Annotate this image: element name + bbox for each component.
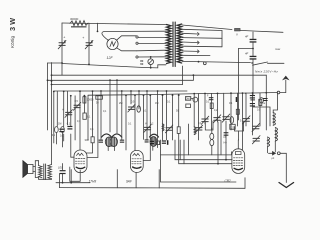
wire (178, 95, 180, 127)
wire (97, 96, 99, 158)
wire anode lines to output stage (175, 140, 232, 160)
resistor R box rf2 (236, 109, 239, 114)
oval Cu (260, 98, 264, 103)
wire bottom link left (161, 154, 189, 156)
wire (134, 95, 136, 150)
svg-text:3 W: 3 W (8, 18, 17, 31)
wire tap bus vertical (221, 31, 223, 47)
wire secondary taps mid (182, 29, 222, 30)
junction dots mid (92, 90, 174, 96)
wire to earth (280, 153, 286, 182)
capacitor C if right (120, 140, 124, 141)
capacitor C 4uF lower (250, 56, 257, 57)
wire (238, 131, 240, 140)
tube V2 AF2 (130, 150, 143, 172)
svg-text:300: 300 (85, 138, 90, 142)
trimmer capacitor C a2 (62, 108, 72, 117)
svg-text:max: max (275, 47, 281, 51)
grid bias loop box (189, 124, 232, 155)
wire corner down right (265, 75, 267, 130)
resistor R oval (230, 117, 234, 124)
trimmer capacitor C mains left (58, 36, 66, 49)
resistor R oval m (137, 106, 141, 112)
wire (149, 95, 151, 160)
wire (217, 93, 219, 122)
wire avc top (253, 107, 270, 126)
wire (191, 97, 193, 99)
title Körting 3W (rotated) (8, 18, 17, 48)
svg-text:1M: 1M (58, 122, 61, 125)
value labels (58, 101, 261, 131)
wire antenna to bus (280, 92, 286, 94)
wire (83, 96, 85, 113)
connector circle (203, 62, 206, 65)
wire tube1 cathode (70, 170, 72, 183)
wire tube2 loop risers (116, 170, 118, 188)
wire barretter loop to primary tap (102, 31, 166, 40)
resistor R oval2 (61, 127, 65, 133)
connector plug (269, 152, 276, 155)
capacitor C rf small3 (263, 98, 268, 99)
junction dots (53, 90, 85, 96)
wire (198, 94, 200, 141)
wire (172, 95, 174, 140)
bus chassis y91 (54, 90, 187, 92)
wire (109, 80, 111, 132)
coil L det (150, 134, 159, 137)
wire (87, 96, 89, 140)
resistor R 0,1 box (83, 113, 86, 119)
svg-text:4F: 4F (245, 34, 249, 38)
resistor R mains dropper (70, 21, 88, 26)
transformer T1 primary taps with plugs (138, 37, 166, 39)
svg-text:Körtig: Körtig (10, 36, 15, 48)
wire (67, 91, 69, 125)
vertical x51.5 B+ to output transformer (51, 63, 53, 165)
box 125 (230, 124, 235, 129)
resistor R oval1 (55, 127, 59, 133)
wire (157, 91, 159, 148)
wire vertical x62 (61, 23, 63, 75)
resistor R box rf3 (259, 99, 262, 105)
wire coil leads (267, 147, 269, 153)
wires into tube1 top (70, 134, 72, 157)
transformer T1 primary winding (167, 25, 172, 64)
wire (79, 91, 81, 149)
wire cap tap left bracket (239, 48, 254, 50)
wire secondary bottom tap to switch (182, 61, 251, 62)
capacitor C a4 (59, 129, 64, 130)
wire (166, 91, 168, 140)
capacitor C rf small1 (209, 97, 214, 98)
svg-text:+: + (62, 108, 64, 112)
wire antenna to coil (273, 93, 277, 113)
wire (70, 96, 72, 126)
wire (242, 93, 244, 150)
trimmer capacitor C m3 (165, 125, 172, 133)
dial lamp L (148, 59, 154, 65)
wire (217, 122, 219, 164)
capacitor C rf small2 (250, 97, 255, 98)
wire U link2 (235, 122, 244, 131)
wire barretter to tap y50 (117, 48, 137, 51)
trimmer capacitor C m1 (128, 104, 135, 112)
junction (88, 64, 90, 66)
svg-text:12F: 12F (107, 56, 114, 60)
wire (223, 93, 225, 120)
trimmer capacitor C (mains) (82, 36, 93, 49)
capacitor C g (224, 132, 229, 133)
wire (230, 93, 232, 130)
wire lamp top lead (150, 57, 152, 59)
wire (237, 93, 239, 126)
svg-text:DNS: DNS (186, 98, 191, 101)
capacitor C if left (99, 140, 103, 141)
wire output tube cathode loop (158, 170, 160, 188)
wire (252, 93, 254, 135)
wire cap chain down (252, 59, 254, 94)
capacitor C a3 (67, 126, 72, 127)
bus y95 (88, 93, 277, 96)
wire (56, 92, 58, 127)
wire heater bus y63 (62, 64, 166, 68)
wire (130, 91, 132, 104)
text max (275, 47, 281, 51)
svg-text:+: + (63, 36, 65, 40)
box small (186, 104, 191, 108)
wire (245, 93, 247, 126)
svg-text:125: 125 (230, 126, 235, 129)
junction dots on bus (204, 92, 267, 95)
resistor R box left of IF (91, 137, 94, 143)
svg-text:H+: H+ (224, 141, 228, 145)
capacitor C 4uF upper (252, 32, 254, 39)
trimmer capacitor C rf2b (222, 114, 230, 122)
svg-text:V: V (236, 32, 238, 36)
transformer T1 core (172, 22, 174, 67)
wire (225, 121, 227, 160)
coil L ant1 (273, 113, 275, 126)
wire secondary HT top tap (182, 25, 232, 30)
resistor R h box (96, 96, 103, 99)
wire (100, 91, 102, 140)
antenna A (282, 76, 290, 81)
wire (252, 42, 254, 55)
resistor R 30000 vertical (83, 97, 86, 103)
bus heater2 y84.5 (52, 66, 183, 85)
wire barretter to tap y36 (117, 36, 137, 40)
wire (125, 95, 127, 150)
fuse F (235, 28, 241, 31)
caps on x253 chain lower (250, 95, 255, 96)
speaker LS (23, 161, 28, 178)
wire coil stubs (107, 147, 109, 151)
wire (259, 93, 261, 126)
output tube V3 (232, 149, 245, 174)
coil L ant2 (275, 128, 277, 142)
wire (211, 93, 213, 130)
trimmer capacitor C m2 (144, 125, 151, 133)
wire (204, 94, 206, 125)
wire vertical x89 (88, 23, 90, 64)
resistor R double oval (210, 133, 214, 139)
coil L ant3 (268, 137, 270, 147)
wire bottom loop y182 (161, 140, 237, 182)
svg-text:4F: 4F (245, 51, 249, 55)
svg-text:17H8: 17H8 (89, 179, 97, 183)
wire (74, 96, 76, 140)
barretter tube U 12F (107, 38, 118, 49)
svg-text:Netz 220V~Hz: Netz 220V~Hz (255, 70, 278, 74)
wire tube V1 leads down (59, 174, 61, 188)
svg-text:30000: 30000 (70, 17, 79, 21)
trimmer capacitor C a1 (73, 102, 80, 110)
wire (146, 91, 148, 139)
wire audio bottom y182.7 (56, 182, 90, 184)
box DNS (185, 97, 190, 101)
capacitor C dark bar (236, 97, 238, 102)
wire (116, 80, 118, 133)
wire (138, 91, 140, 109)
resistor R box rf (210, 103, 213, 109)
output transformer T2 core (43, 164, 45, 180)
svg-text:60: 60 (140, 62, 144, 66)
tube V1 AF (74, 150, 87, 173)
wire (121, 91, 123, 140)
trimmer capacitor C rf2 (213, 115, 221, 123)
ground bus bottom (60, 187, 246, 190)
trimmer capacitor C rf5 (252, 123, 260, 131)
wire (193, 94, 195, 127)
vertical x47.5 (47, 63, 49, 130)
wire cap leads (62, 164, 64, 171)
wire output tube top lead (237, 140, 239, 149)
trimmer capacitor C rf1 (201, 116, 209, 124)
trimmer capacitor C g2 (196, 125, 203, 132)
wire (53, 92, 55, 144)
wire (143, 95, 145, 139)
circle comp (193, 97, 198, 102)
wire speaker top/bottom to winding (38, 161, 40, 166)
tap tick marks (198, 33, 200, 53)
wire U link1 (205, 121, 213, 130)
bus B+ y75.2 (52, 74, 267, 76)
wire left links (48, 62, 63, 64)
transformer T1 secondary winding (177, 24, 182, 63)
capacitor C det (145, 139, 149, 140)
wire (220, 121, 222, 155)
wire lamp bottom lead (150, 65, 152, 68)
coil L det2 (162, 124, 164, 131)
wire (63, 91, 65, 126)
capacitor C speaker (60, 170, 66, 171)
wire (92, 91, 94, 137)
resistor R box m (177, 127, 180, 134)
ground symbol (279, 183, 294, 188)
trimmer capacitor C rf3 (242, 116, 250, 124)
wire fuse to right (240, 30, 283, 32)
wire vertical x97.5 (97, 23, 99, 31)
svg-text:+: + (82, 36, 84, 40)
IF transformer coils (102, 134, 112, 137)
output transformer T2 winding R (48, 165, 52, 179)
output transformer T2 winding L (39, 166, 43, 178)
small marks above tube2 (150, 141, 154, 142)
bus heater1 y80.3 (48, 75, 194, 80)
mains switch S (253, 62, 268, 65)
wire top mains line (62, 23, 166, 25)
trimmer capacitor C rf4 (252, 136, 260, 144)
wire (162, 95, 164, 140)
coil L m (194, 127, 196, 135)
